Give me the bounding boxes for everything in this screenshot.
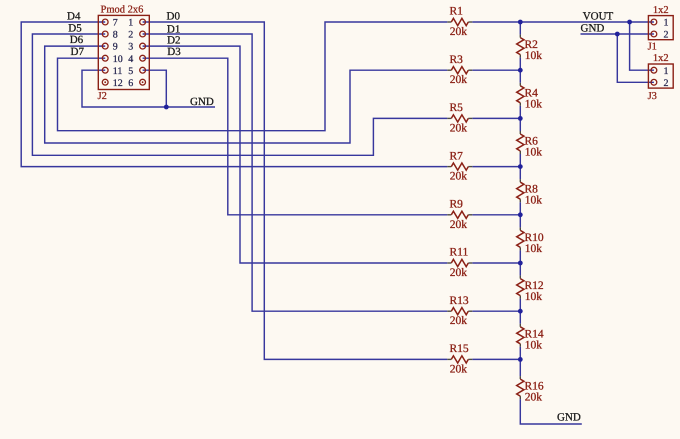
svg-text:R9: R9 bbox=[450, 199, 464, 211]
svg-text:R7: R7 bbox=[450, 150, 464, 162]
resistor R1 bbox=[447, 18, 472, 25]
svg-text:4: 4 bbox=[128, 54, 133, 65]
svg-text:1: 1 bbox=[128, 18, 133, 29]
wire ladder spine below R10 bbox=[519, 250, 521, 263]
svg-text:D3: D3 bbox=[167, 46, 181, 58]
pin 2 of J2 bbox=[128, 30, 145, 41]
resistor R13 bbox=[447, 308, 472, 315]
wire net D4 from J2 pin 7 to R7 bbox=[21, 22, 447, 167]
svg-text:J2: J2 bbox=[98, 91, 107, 102]
wire R11 output to ladder node bbox=[472, 262, 520, 264]
svg-text:10k: 10k bbox=[525, 243, 543, 255]
svg-text:10k: 10k bbox=[525, 195, 543, 207]
pin 1 of J2 bbox=[128, 18, 145, 29]
junction VOUT to J3 bbox=[627, 20, 632, 25]
junction GND net under J2 bbox=[164, 105, 169, 110]
svg-text:10k: 10k bbox=[525, 291, 543, 303]
wire ladder spine below R4 bbox=[519, 106, 521, 119]
wire R13 output to ladder node bbox=[472, 310, 520, 312]
svg-text:2: 2 bbox=[664, 78, 669, 89]
wire VOUT net from R1 to J1 pin 1 bbox=[472, 21, 654, 23]
svg-text:D0: D0 bbox=[167, 10, 181, 22]
resistor R5 bbox=[447, 115, 472, 122]
wire ladder spine below R14 bbox=[519, 347, 521, 360]
svg-text:5: 5 bbox=[128, 66, 133, 77]
svg-text:GND: GND bbox=[557, 411, 581, 423]
wire VOUT branch to J3 pin 1 bbox=[630, 22, 654, 70]
pin 1 of J3 bbox=[651, 66, 669, 77]
svg-text:R15: R15 bbox=[450, 343, 469, 355]
svg-text:D6: D6 bbox=[70, 34, 84, 46]
wire net D6 from J2 pin 9 to R3 bbox=[45, 46, 448, 143]
wire ladder spine above R10 bbox=[519, 215, 521, 228]
svg-text:20k: 20k bbox=[450, 26, 468, 38]
svg-text:2: 2 bbox=[664, 30, 669, 41]
pin 2 of J1 bbox=[651, 30, 669, 41]
junction ladder node at R1 bbox=[518, 20, 523, 25]
junction ladder node at R5 bbox=[518, 116, 523, 121]
svg-text:GND: GND bbox=[190, 96, 214, 108]
connector J3 1x2 body bbox=[648, 64, 673, 88]
wire from R16 to bottom GND bbox=[520, 399, 582, 424]
pin 8 of J2 bbox=[102, 30, 118, 41]
svg-text:D7: D7 bbox=[71, 46, 85, 58]
svg-text:D2: D2 bbox=[167, 34, 180, 46]
wire ladder spine above R16 bbox=[519, 359, 521, 376]
junction GND to J3 bbox=[615, 32, 620, 37]
svg-text:9: 9 bbox=[113, 42, 118, 53]
svg-text:6: 6 bbox=[128, 78, 133, 89]
svg-text:3: 3 bbox=[128, 42, 133, 53]
svg-text:20k: 20k bbox=[450, 122, 468, 134]
wire net D0 from J2 pin 1 to R15 bbox=[143, 22, 448, 359]
wire GND from J2 pin 11 bbox=[82, 70, 215, 107]
svg-text:VOUT: VOUT bbox=[583, 11, 614, 23]
resistor R2 bbox=[517, 35, 524, 58]
pin 11 of J2 bbox=[102, 66, 122, 77]
wire ladder spine above R6 bbox=[519, 118, 521, 131]
svg-text:D4: D4 bbox=[67, 11, 81, 23]
resistor R12 bbox=[517, 276, 524, 299]
resistor R16 bbox=[517, 376, 524, 399]
pin 10 of J2 bbox=[102, 54, 123, 65]
pin 9 of J2 bbox=[102, 42, 118, 53]
resistor R4 bbox=[517, 83, 524, 106]
svg-text:1x2: 1x2 bbox=[653, 53, 669, 64]
connector J2 Pmod 2x6 body bbox=[98, 15, 149, 89]
wire ladder spine below R12 bbox=[519, 299, 521, 312]
pin 2 of J3 bbox=[651, 78, 669, 89]
svg-text:1: 1 bbox=[664, 18, 669, 29]
wire R7 output to ladder node bbox=[472, 166, 520, 168]
wire ladder spine above R4 bbox=[519, 70, 521, 83]
svg-text:J3: J3 bbox=[648, 91, 657, 102]
svg-text:20k: 20k bbox=[450, 74, 468, 86]
resistor R8 bbox=[517, 179, 524, 202]
wire ladder spine above R14 bbox=[519, 311, 521, 324]
svg-text:10k: 10k bbox=[525, 339, 543, 351]
wire R15 output to ladder node bbox=[472, 358, 520, 360]
svg-text:12: 12 bbox=[113, 78, 123, 89]
pin 6 of J2 bbox=[128, 78, 145, 89]
svg-text:J1: J1 bbox=[648, 41, 657, 52]
svg-text:R13: R13 bbox=[450, 295, 469, 307]
wire net D7 from J2 pin 10 to R1 bbox=[58, 22, 448, 131]
svg-text:10k: 10k bbox=[525, 50, 543, 62]
junction ladder node at R9 bbox=[518, 212, 523, 217]
wire ladder spine above R12 bbox=[519, 263, 521, 276]
pin 3 of J2 bbox=[128, 42, 145, 53]
resistor R3 bbox=[447, 67, 472, 74]
junction ladder node at R13 bbox=[518, 309, 523, 314]
resistor R14 bbox=[517, 324, 524, 347]
resistor R6 bbox=[517, 131, 524, 154]
svg-text:20k: 20k bbox=[450, 315, 468, 327]
svg-text:Pmod 2x6: Pmod 2x6 bbox=[101, 5, 144, 16]
svg-text:20k: 20k bbox=[450, 267, 468, 279]
svg-text:1x2: 1x2 bbox=[653, 5, 669, 16]
svg-text:R5: R5 bbox=[450, 102, 464, 114]
wire net D2 from J2 pin 3 to R11 bbox=[143, 46, 448, 263]
svg-text:2: 2 bbox=[128, 30, 133, 41]
wire net D1 from J2 pin 2 to R13 bbox=[143, 34, 448, 311]
svg-text:R1: R1 bbox=[450, 6, 464, 18]
junction ladder node at R11 bbox=[518, 261, 523, 266]
svg-text:11: 11 bbox=[113, 66, 123, 77]
svg-text:1: 1 bbox=[664, 66, 669, 77]
wire GND from J2 pin 5 bbox=[143, 70, 167, 107]
pin 5 of J2 bbox=[128, 66, 145, 77]
resistor R10 bbox=[517, 227, 524, 250]
svg-text:R3: R3 bbox=[450, 54, 464, 66]
wire ladder spine below R2 bbox=[519, 58, 521, 71]
wire R9 output to ladder node bbox=[472, 214, 520, 216]
wire R5 output to ladder node bbox=[472, 117, 520, 119]
resistor R9 bbox=[447, 211, 472, 218]
svg-text:10k: 10k bbox=[525, 147, 543, 159]
svg-text:20k: 20k bbox=[450, 219, 468, 231]
resistor R15 bbox=[447, 356, 472, 363]
pin 1 of J1 bbox=[651, 18, 669, 29]
wire R3 output to ladder node bbox=[472, 69, 520, 71]
svg-text:7: 7 bbox=[113, 18, 118, 29]
wire GND branch to J3 pin 2 bbox=[617, 34, 654, 82]
wire ladder spine below R8 bbox=[519, 202, 521, 215]
junction ladder node at R7 bbox=[518, 164, 523, 169]
svg-text:20k: 20k bbox=[525, 392, 543, 404]
svg-text:GND: GND bbox=[581, 23, 605, 35]
wire net D3 from J2 pin 4 to R9 bbox=[143, 58, 448, 215]
junction ladder node at R15 bbox=[518, 357, 523, 362]
svg-text:20k: 20k bbox=[450, 363, 468, 375]
junction ladder node at R3 bbox=[518, 68, 523, 73]
svg-text:8: 8 bbox=[113, 30, 118, 41]
svg-text:20k: 20k bbox=[450, 171, 468, 183]
resistor R7 bbox=[447, 163, 472, 170]
pin 12 of J2 bbox=[102, 78, 123, 89]
pin 7 of J2 bbox=[102, 18, 118, 29]
wire net D5 from J2 pin 8 to R5 bbox=[32, 34, 447, 155]
wire ladder spine below R6 bbox=[519, 154, 521, 167]
resistor R11 bbox=[447, 259, 472, 266]
wire GND stub to J1 pin 2 bbox=[581, 33, 654, 35]
pin 4 of J2 bbox=[128, 54, 145, 65]
wire ladder spine above R2 bbox=[519, 22, 521, 35]
connector J1 1x2 body bbox=[648, 16, 673, 40]
svg-text:D5: D5 bbox=[68, 22, 82, 34]
wire ladder spine above R8 bbox=[519, 167, 521, 180]
svg-text:10: 10 bbox=[113, 54, 123, 65]
svg-text:R11: R11 bbox=[450, 247, 469, 259]
svg-text:10k: 10k bbox=[525, 98, 543, 110]
